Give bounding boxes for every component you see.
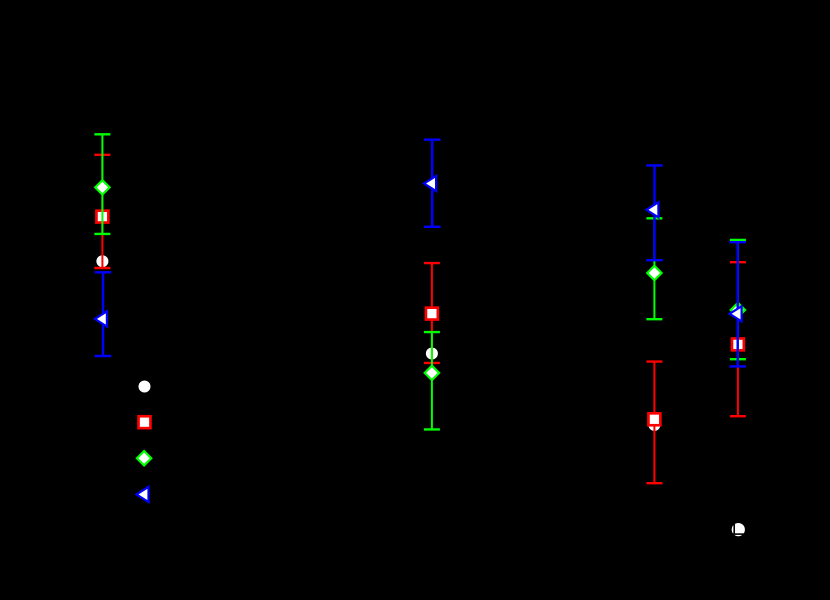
green errorbar group1 xyxy=(94,134,110,234)
green errorbar group2 xyxy=(424,332,440,429)
circle marker group3 xyxy=(648,419,660,431)
circle marker group2 xyxy=(426,348,438,360)
green errorbar group3 xyxy=(646,218,662,319)
red errorbar group4 xyxy=(730,262,746,416)
green diamond marker group1 xyxy=(95,180,109,194)
green diamond marker group3 xyxy=(647,266,661,280)
red errorbar group2 xyxy=(424,263,440,363)
red square marker group2 xyxy=(426,308,438,320)
green diamond marker group2 xyxy=(425,366,439,380)
blue triangle marker group3 xyxy=(646,202,658,217)
blue triangle marker group2 xyxy=(424,176,436,191)
blue triangle marker group1 xyxy=(95,311,107,326)
legend red square marker xyxy=(139,416,151,428)
red square marker group1 xyxy=(96,211,108,223)
red errorbar group3 xyxy=(646,362,662,484)
blue errorbar group3 xyxy=(646,165,663,260)
blue triangle marker group4 xyxy=(730,306,742,321)
red square marker group4 xyxy=(732,338,744,350)
circle marker group1 xyxy=(96,255,108,267)
x-axis tick (black, cuts group4 circle) xyxy=(733,524,735,535)
x-axis spine segment (black, cuts group4 circle) xyxy=(700,533,790,535)
legend blue triangle marker xyxy=(137,487,149,502)
blue errorbar group2 xyxy=(424,140,441,227)
circle marker group4 xyxy=(732,523,745,536)
red errorbar group1 xyxy=(94,155,110,268)
blue errorbar group1 xyxy=(95,272,112,356)
blue errorbar group4 xyxy=(729,242,746,366)
legend circle marker xyxy=(139,381,151,393)
green diamond marker group4 xyxy=(731,303,745,317)
legend green diamond marker xyxy=(137,451,151,465)
green errorbar group4 xyxy=(730,240,746,359)
red square marker group3 xyxy=(648,413,660,425)
